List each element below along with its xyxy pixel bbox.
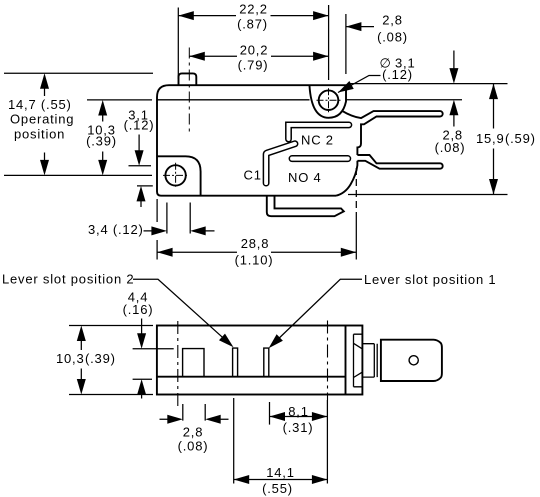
parting line [157, 376, 346, 378]
svg-text:(.59): (.59) [505, 131, 536, 146]
svg-text:2,8: 2,8 [183, 425, 203, 440]
svg-text:(.31): (.31) [283, 420, 314, 435]
svg-text:position: position [14, 127, 65, 142]
svg-text:2,8: 2,8 [382, 13, 402, 28]
svg-text:(.55): (.55) [262, 481, 293, 496]
centerline extension below [326, 400, 328, 484]
dim 2,8 right lower arrow tail [453, 113, 455, 127]
upper hole centerline datum (left extension) [87, 99, 152, 101]
svg-text:(.16): (.16) [123, 302, 154, 317]
svg-text:Operating: Operating [10, 112, 74, 127]
extension line 22,2 left [177, 8, 179, 80]
mounting hole boss top-right [310, 86, 347, 118]
20,2 arrows [189, 52, 205, 61]
cap chamfers [354, 343, 363, 377]
lower hole centerline datum [4, 174, 152, 176]
svg-text:C1: C1 [244, 168, 262, 183]
ext line 3,4 right [189, 203, 191, 234]
dim 4,4 lower arrow tail [141, 392, 143, 398]
10,3 arrows [98, 100, 107, 116]
quick connect tab [381, 340, 442, 381]
svg-text:28,8: 28,8 [241, 236, 270, 251]
svg-text:15,9: 15,9 [476, 131, 505, 146]
internal NO contact strip [289, 156, 350, 162]
ext lines 2,8 bottom [183, 404, 205, 421]
NO terminal (lower right) [357, 155, 442, 169]
28,8 arrows [157, 248, 173, 257]
svg-text:Lever slot position 2: Lever slot position 2 [2, 272, 134, 287]
svg-text:(.39): (.39) [86, 134, 117, 149]
svg-text:NC 2: NC 2 [301, 133, 334, 148]
dim 3,1 lower arrow tail [140, 199, 142, 207]
svg-text:(.12): (.12) [124, 118, 155, 133]
dim 10,3 arrows line [102, 105, 104, 171]
svg-text:(.87): (.87) [237, 17, 268, 32]
dim 3,1 upper arrow line [138, 135, 140, 153]
tab hole [409, 356, 418, 365]
leader lever slot position 2 [133, 279, 229, 343]
bottom view body [157, 326, 363, 395]
svg-text:14,7 (.55): 14,7 (.55) [8, 97, 72, 112]
thin slot B [264, 348, 269, 377]
2,8 top arrow [346, 22, 362, 31]
dim 10,3 arrow tails [80, 331, 82, 390]
22,2 arrows [178, 11, 194, 20]
dimension line 28,8 [157, 251, 356, 253]
hole crosshair bottom-left [163, 163, 188, 188]
extension line 22,2/20,2 right [328, 5, 330, 80]
svg-text:(.39): (.39) [85, 351, 116, 366]
leader diameter 3,1 [338, 76, 381, 93]
2,8 bottom arrows [167, 415, 183, 424]
ext lines 10,3 bottom view [69, 326, 153, 395]
ext line slot A (long) [233, 398, 235, 484]
svg-text:(.08): (.08) [435, 140, 466, 155]
hole crosshair top-right [317, 88, 341, 112]
dim 3,1 ticks [129, 166, 153, 186]
15,9 arrows [489, 84, 498, 100]
thin slot A [233, 348, 238, 377]
end cap line [345, 326, 347, 395]
svg-text:(.08): (.08) [377, 29, 408, 44]
body bottom extension right [348, 194, 508, 196]
plunger (operating button) [179, 73, 197, 85]
14,1 arrows [234, 475, 250, 484]
svg-text:10,3: 10,3 [56, 351, 85, 366]
dim 2,8 right upper arrow [453, 51, 455, 71]
dim 8,1 line [270, 416, 328, 418]
svg-text:(.79): (.79) [238, 58, 269, 73]
seam extension right [346, 99, 462, 101]
operating position line [4, 72, 153, 74]
leader arrows [219, 334, 237, 351]
leader lever slot position 1 [273, 279, 362, 344]
internal NC contact strip [286, 122, 352, 142]
svg-text:8,1: 8,1 [288, 404, 308, 419]
svg-text:(.12): (.12) [382, 67, 413, 82]
cap inner line [354, 334, 363, 387]
dim 15,9 line [493, 84, 495, 195]
C common terminal (bottom) [267, 196, 344, 217]
dim 2,8 bottom arrow tails [160, 418, 229, 420]
body bottom-right corner curve [336, 161, 357, 196]
arrowheads bottom view [77, 326, 328, 485]
3,1 arrows [135, 150, 144, 166]
svg-text:Lever slot position 1: Lever slot position 1 [364, 272, 496, 287]
svg-text:(.08): (.08) [178, 439, 209, 454]
dimension line 2,8 top [346, 26, 374, 28]
switch body outline (top view) [157, 85, 346, 196]
svg-text:20,2: 20,2 [240, 43, 269, 58]
svg-text:(1.10): (1.10) [235, 253, 274, 268]
plunger centerline [188, 48, 190, 133]
mounting hole boss bottom-left [157, 156, 201, 195]
ext line 28,8 left [156, 199, 158, 260]
10,3 arrows [77, 326, 86, 342]
dim 4,4 ticks [133, 349, 174, 380]
NC terminal (upper right) [342, 111, 443, 155]
leader arrow 3,1 hole [336, 81, 354, 96]
svg-text:3,4 (.12): 3,4 (.12) [88, 222, 144, 237]
dimension line 22,2 [178, 15, 328, 17]
body top extension right [348, 83, 508, 85]
dim 3,4 arrow tails [144, 230, 215, 232]
arrowheads top view [40, 11, 498, 257]
extension line 2,8 top right [345, 14, 347, 74]
14,7 arrows [40, 73, 49, 89]
3,4 arrows [151, 226, 167, 235]
ext line 28,8 right (dashed through body) [355, 168, 357, 215]
body top seam line [157, 99, 310, 101]
svg-text:NO 4: NO 4 [288, 170, 322, 185]
8,1 arrows [270, 412, 286, 421]
svg-text:14,1: 14,1 [266, 465, 295, 480]
2,8 right arrows [449, 68, 458, 84]
dim 14,7 arrows line [44, 78, 46, 171]
terminal neck [362, 344, 377, 377]
dim 14,1 line [234, 479, 328, 481]
ext line slot B [269, 402, 271, 425]
bottom view centerline [327, 321, 329, 401]
wide lever slot [183, 349, 204, 377]
dimension line 20,2 [189, 55, 328, 57]
dim 4,4 upper arrow [141, 319, 143, 336]
mounting hole top-right [319, 90, 339, 110]
ext line 3,4 left [166, 203, 168, 234]
plunger centerline bottom view [177, 321, 179, 408]
internal common contact strip [263, 141, 297, 186]
4,4 arrows [137, 333, 146, 349]
svg-text:22,2: 22,2 [239, 2, 268, 17]
mounting hole bottom-left [165, 165, 185, 185]
